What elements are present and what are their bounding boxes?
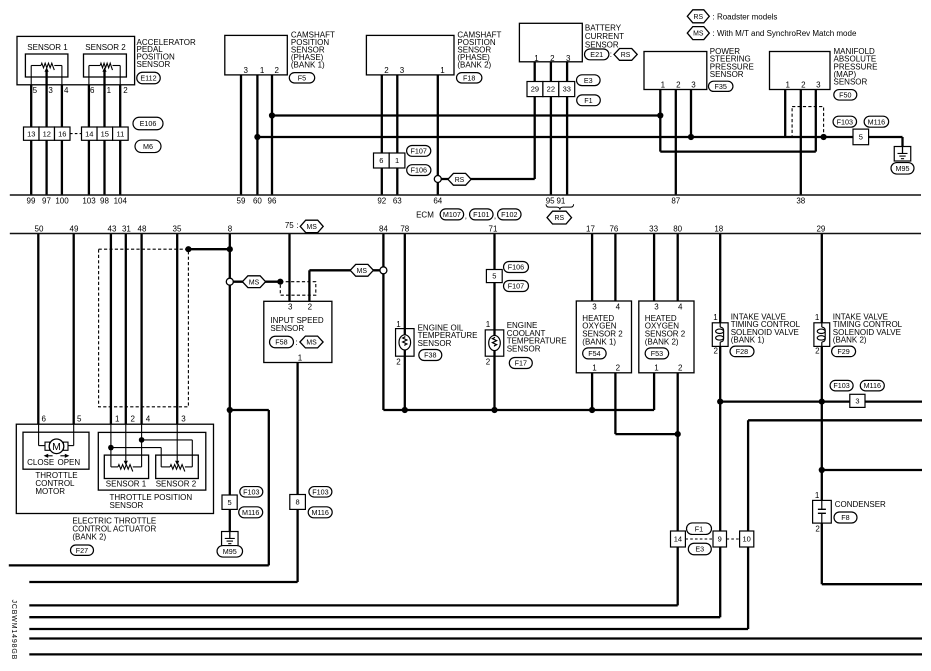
svg-text:71: 71 xyxy=(489,224,498,233)
svg-text:60: 60 xyxy=(253,196,262,205)
svg-text:18: 18 xyxy=(714,224,723,233)
svg-text:14: 14 xyxy=(85,129,93,138)
svg-text:M116: M116 xyxy=(311,508,328,517)
svg-text:SENSOR: SENSOR xyxy=(585,40,619,49)
svg-text:F18: F18 xyxy=(463,73,475,82)
svg-text:97: 97 xyxy=(42,196,51,205)
svg-text:2: 2 xyxy=(714,347,719,356)
svg-text:MS: MS xyxy=(306,340,317,347)
svg-text:CONDENSER: CONDENSER xyxy=(835,500,886,509)
svg-text:F8: F8 xyxy=(841,513,849,522)
svg-text:4: 4 xyxy=(616,302,621,311)
svg-text:ECM: ECM xyxy=(416,210,434,219)
svg-text:80: 80 xyxy=(673,224,682,233)
svg-text:M95: M95 xyxy=(223,547,237,556)
svg-text:MS: MS xyxy=(693,31,704,38)
svg-text:2: 2 xyxy=(131,415,136,424)
svg-text:3: 3 xyxy=(654,302,659,311)
svg-text:4: 4 xyxy=(64,86,69,95)
svg-text::: : xyxy=(296,338,298,347)
svg-text:6: 6 xyxy=(90,86,95,95)
svg-text:87: 87 xyxy=(671,196,680,205)
svg-text:2: 2 xyxy=(384,66,389,75)
svg-text:12: 12 xyxy=(43,129,51,138)
svg-text:MOTOR: MOTOR xyxy=(35,487,65,496)
svg-text:2: 2 xyxy=(486,358,491,367)
svg-text:43: 43 xyxy=(108,224,117,233)
svg-text:E21: E21 xyxy=(590,50,603,59)
svg-text:31: 31 xyxy=(122,224,131,233)
svg-text:(BANK 2): (BANK 2) xyxy=(457,61,491,70)
svg-text:M116: M116 xyxy=(868,117,885,126)
svg-text:F106: F106 xyxy=(508,263,524,272)
svg-text:35: 35 xyxy=(173,224,182,233)
svg-text:100: 100 xyxy=(55,196,69,205)
svg-text:2: 2 xyxy=(308,302,313,311)
svg-text:(BANK 2): (BANK 2) xyxy=(645,337,679,346)
svg-text:M107: M107 xyxy=(443,210,461,219)
svg-text:SENSOR 2: SENSOR 2 xyxy=(156,479,197,488)
svg-text:75: 75 xyxy=(285,221,294,230)
svg-text:SENSOR: SENSOR xyxy=(834,78,868,87)
svg-text:8: 8 xyxy=(296,498,300,507)
svg-text:M: M xyxy=(52,441,61,453)
svg-text:59: 59 xyxy=(237,196,246,205)
svg-text:48: 48 xyxy=(138,224,147,233)
svg-text:OPEN: OPEN xyxy=(58,458,81,467)
svg-text:SENSOR: SENSOR xyxy=(137,60,171,69)
svg-text:13: 13 xyxy=(27,129,35,138)
svg-text:1: 1 xyxy=(486,320,491,329)
svg-text:3: 3 xyxy=(816,81,821,90)
svg-text:RS: RS xyxy=(621,52,631,59)
svg-text:15: 15 xyxy=(101,129,109,138)
svg-text:: With M/T and SynchroRev Matc: : With M/T and SynchroRev Match mode xyxy=(713,29,857,38)
svg-text:F17: F17 xyxy=(515,359,527,368)
svg-text:2: 2 xyxy=(396,358,401,367)
svg-text:11: 11 xyxy=(116,129,124,138)
svg-text:3: 3 xyxy=(691,81,696,90)
svg-text:1: 1 xyxy=(107,86,112,95)
svg-text:16: 16 xyxy=(58,129,66,138)
svg-text:F35: F35 xyxy=(715,82,727,91)
svg-text:78: 78 xyxy=(400,224,409,233)
svg-text:104: 104 xyxy=(114,196,128,205)
svg-text:2: 2 xyxy=(550,54,555,63)
svg-text:SENSOR 1: SENSOR 1 xyxy=(106,479,147,488)
svg-text:5: 5 xyxy=(33,86,38,95)
svg-text:5: 5 xyxy=(228,498,232,507)
svg-text:2: 2 xyxy=(275,66,280,75)
svg-text:3: 3 xyxy=(855,396,859,405)
svg-text:2: 2 xyxy=(815,347,820,356)
svg-text:F58: F58 xyxy=(275,338,287,347)
svg-text:2: 2 xyxy=(123,86,128,95)
svg-text:F102: F102 xyxy=(501,210,517,219)
svg-text:E3: E3 xyxy=(584,76,593,85)
svg-text:SENSOR: SENSOR xyxy=(110,501,144,510)
svg-text:E112: E112 xyxy=(140,74,156,83)
svg-text:96: 96 xyxy=(268,196,277,205)
svg-text:SENSOR: SENSOR xyxy=(418,339,452,348)
svg-text:SENSOR: SENSOR xyxy=(710,70,744,79)
svg-text:SENSOR: SENSOR xyxy=(507,345,541,354)
svg-text:29: 29 xyxy=(531,85,539,94)
svg-text:3: 3 xyxy=(48,86,53,95)
svg-text:4: 4 xyxy=(678,302,683,311)
svg-text:1: 1 xyxy=(592,363,597,372)
svg-text:F50: F50 xyxy=(839,90,851,99)
svg-text:1: 1 xyxy=(534,54,539,63)
svg-text:F28: F28 xyxy=(736,347,748,356)
svg-text:E106: E106 xyxy=(140,119,157,128)
svg-text:F103: F103 xyxy=(837,117,853,126)
svg-text:M116: M116 xyxy=(864,381,881,390)
svg-text:,: , xyxy=(494,212,496,221)
svg-text:2: 2 xyxy=(678,363,683,372)
svg-text:3: 3 xyxy=(181,415,186,424)
svg-text:CLOSE: CLOSE xyxy=(27,458,54,467)
svg-text:(BANK 1): (BANK 1) xyxy=(291,61,325,70)
svg-text:F107: F107 xyxy=(508,282,524,291)
svg-text:38: 38 xyxy=(796,196,805,205)
svg-text:91: 91 xyxy=(556,196,565,205)
svg-text:3: 3 xyxy=(592,302,597,311)
svg-text:5: 5 xyxy=(859,133,863,142)
svg-text:49: 49 xyxy=(70,224,79,233)
svg-text:SENSOR 2: SENSOR 2 xyxy=(85,43,126,52)
svg-text:RS: RS xyxy=(694,14,704,21)
svg-text:MS: MS xyxy=(249,279,260,286)
svg-text:4: 4 xyxy=(146,415,151,424)
svg-text:F5: F5 xyxy=(298,73,306,82)
svg-text:1: 1 xyxy=(298,353,303,362)
svg-text:1: 1 xyxy=(440,66,445,75)
svg-text:103: 103 xyxy=(82,196,96,205)
svg-text:1: 1 xyxy=(661,81,666,90)
svg-text:SENSOR 1: SENSOR 1 xyxy=(27,43,68,52)
svg-text:50: 50 xyxy=(35,224,44,233)
svg-text:M6: M6 xyxy=(143,142,153,151)
svg-text:8: 8 xyxy=(228,224,233,233)
svg-text::: : xyxy=(610,50,612,59)
svg-text:JCBWM1498GB: JCBWM1498GB xyxy=(10,600,17,661)
svg-text:99: 99 xyxy=(27,196,36,205)
svg-text:(BANK 1): (BANK 1) xyxy=(731,335,765,344)
svg-text:9: 9 xyxy=(718,535,722,544)
svg-text:1: 1 xyxy=(115,415,120,424)
svg-text:6: 6 xyxy=(42,415,47,424)
svg-text:1: 1 xyxy=(260,66,265,75)
svg-text:98: 98 xyxy=(100,196,109,205)
svg-text:3: 3 xyxy=(288,302,293,311)
svg-text:RS: RS xyxy=(555,215,565,222)
svg-text:2: 2 xyxy=(676,81,681,90)
svg-text:76: 76 xyxy=(609,224,618,233)
svg-text:1: 1 xyxy=(396,320,401,329)
svg-text:1: 1 xyxy=(713,313,718,322)
svg-text:RS: RS xyxy=(455,177,465,184)
svg-text:92: 92 xyxy=(377,196,386,205)
svg-text:14: 14 xyxy=(674,535,682,544)
svg-text:: Roadster models: : Roadster models xyxy=(713,12,778,21)
svg-text:1: 1 xyxy=(815,491,820,500)
svg-text:1: 1 xyxy=(654,363,659,372)
svg-text:F106: F106 xyxy=(411,166,427,175)
svg-text:29: 29 xyxy=(816,224,825,233)
svg-text:3: 3 xyxy=(566,54,571,63)
svg-text:,: , xyxy=(465,212,467,221)
svg-text:5: 5 xyxy=(492,272,496,281)
svg-text:F107: F107 xyxy=(411,146,427,155)
svg-text:(BANK 1): (BANK 1) xyxy=(582,337,616,346)
svg-text:6: 6 xyxy=(379,156,383,165)
svg-text:2: 2 xyxy=(801,81,806,90)
svg-text:1: 1 xyxy=(785,81,790,90)
svg-text:M95: M95 xyxy=(896,164,910,173)
svg-text:F54: F54 xyxy=(588,349,600,358)
svg-text:F103: F103 xyxy=(243,487,259,496)
svg-text:33: 33 xyxy=(563,85,571,94)
svg-text:1: 1 xyxy=(395,156,399,165)
svg-text:M116: M116 xyxy=(242,508,259,517)
svg-text:F53: F53 xyxy=(651,349,663,358)
svg-text:F1: F1 xyxy=(584,96,592,105)
svg-text:2: 2 xyxy=(815,524,820,533)
svg-text:MS: MS xyxy=(307,224,318,231)
svg-text:F38: F38 xyxy=(424,351,436,360)
svg-text:17: 17 xyxy=(586,224,595,233)
svg-text:10: 10 xyxy=(743,535,751,544)
svg-text:SENSOR: SENSOR xyxy=(270,324,304,333)
svg-text:2: 2 xyxy=(616,363,621,372)
svg-text:F103: F103 xyxy=(833,381,849,390)
svg-text:F101: F101 xyxy=(473,210,489,219)
svg-text:84: 84 xyxy=(379,224,388,233)
svg-text:5: 5 xyxy=(77,415,82,424)
svg-text:(BANK 2): (BANK 2) xyxy=(72,532,106,541)
svg-text::: : xyxy=(297,221,299,230)
svg-text:F27: F27 xyxy=(76,546,88,555)
svg-text:22: 22 xyxy=(547,85,555,94)
svg-text:(BANK 2): (BANK 2) xyxy=(833,335,867,344)
svg-text:F103: F103 xyxy=(312,487,328,496)
svg-text:1: 1 xyxy=(815,313,820,322)
svg-text:F1: F1 xyxy=(695,524,703,533)
svg-text:E3: E3 xyxy=(695,545,704,554)
svg-text:95: 95 xyxy=(546,196,555,205)
svg-text:33: 33 xyxy=(649,224,658,233)
svg-text:63: 63 xyxy=(393,196,402,205)
svg-text:64: 64 xyxy=(433,196,442,205)
svg-text:3: 3 xyxy=(400,66,405,75)
svg-text:F29: F29 xyxy=(837,347,849,356)
svg-text:3: 3 xyxy=(244,66,249,75)
svg-text:MS: MS xyxy=(357,268,368,275)
